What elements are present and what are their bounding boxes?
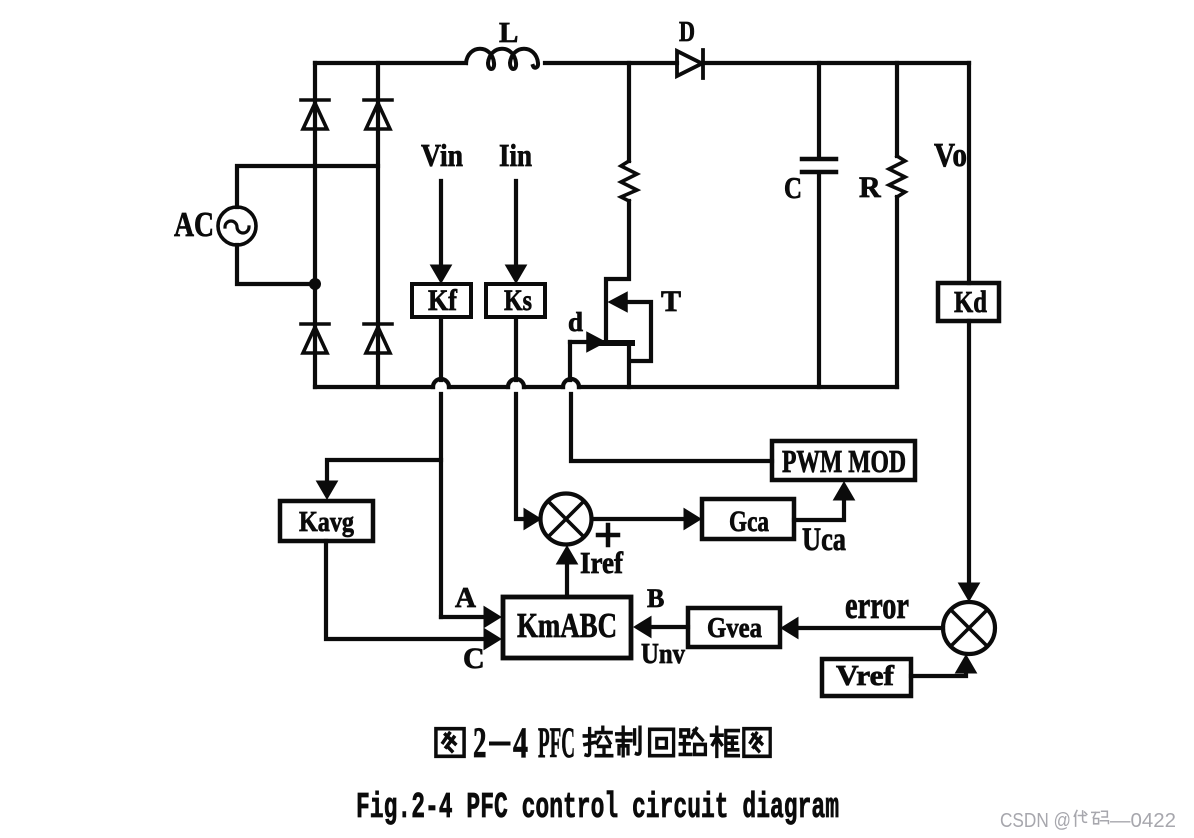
block KmABC — [503, 597, 631, 658]
svg-text:Vref: Vref — [836, 661, 895, 692]
svg-text:Iref: Iref — [580, 545, 624, 580]
block Kf — [412, 284, 471, 317]
caption dash — [489, 742, 511, 746]
resistor R bottom wire — [895, 197, 899, 387]
hanzi dai4 (watermark) — [1074, 811, 1087, 827]
capacitor C plates — [802, 159, 836, 172]
svg-text:Iin: Iin — [499, 137, 532, 173]
transistor T gate arrow d — [570, 340, 587, 344]
wire Gca to PWM MOD — [794, 499, 844, 520]
svg-text:Gca: Gca — [729, 505, 769, 538]
wire Iin arrow — [514, 181, 518, 268]
wire bridge right leg — [376, 63, 380, 387]
hanzi kong4 — [584, 727, 612, 755]
svg-text:Kf: Kf — [428, 284, 458, 317]
svg-text:C: C — [463, 642, 485, 675]
wire M1 to Gca — [592, 517, 684, 521]
hanzi ma3 (watermark) — [1092, 811, 1109, 824]
wire bridge left leg — [313, 63, 317, 387]
block Kd — [938, 283, 999, 321]
svg-text:L: L — [499, 17, 518, 49]
block Gvea — [688, 608, 780, 647]
wire resistor to drain — [606, 201, 629, 342]
svg-text:PWM MOD: PWM MOD — [782, 443, 906, 479]
svg-text:PFC: PFC — [538, 719, 575, 767]
wire Kf output down — [439, 321, 443, 617]
wire Gvea to KmABC arrow — [651, 625, 688, 629]
diode D3 bridge lower-left — [301, 324, 329, 353]
svg-text:KmABC: KmABC — [517, 606, 617, 645]
wire Ks output to multiplier — [516, 321, 524, 519]
wire branch to Kavg — [327, 460, 441, 482]
diode D2 bridge upper-right — [364, 100, 392, 129]
wire Kavg to C input — [326, 541, 484, 639]
wire Kd to multiplier — [967, 321, 971, 586]
wire right rail to Kd — [967, 63, 971, 283]
svg-text:—0422: —0422 — [1110, 810, 1176, 832]
wire error M2 to Gvea — [798, 626, 943, 630]
wire AC top — [237, 166, 378, 207]
diode D — [677, 50, 703, 78]
hanzi zhi4 — [617, 727, 640, 755]
block Vref — [822, 659, 911, 696]
svg-text:Unv: Unv — [641, 638, 685, 670]
svg-text:A: A — [455, 582, 476, 614]
wire AC bottom — [237, 245, 315, 284]
wire hop at gate line — [563, 379, 579, 387]
AC source — [218, 207, 256, 245]
wire resistor branch top — [627, 63, 631, 161]
diode D1 bridge upper-left — [301, 100, 329, 129]
svg-text:Uca: Uca — [802, 522, 846, 558]
resistor R branch top — [895, 63, 899, 156]
svg-text:Kavg: Kavg — [299, 506, 354, 538]
svg-text:d: d — [568, 307, 583, 337]
svg-text:2: 2 — [473, 719, 487, 767]
multiplier M2 — [943, 602, 995, 654]
inductor L — [466, 49, 538, 69]
block Gca — [702, 499, 794, 539]
hanzi tu2 (caption) — [436, 729, 464, 757]
resistor R zigzag — [889, 156, 905, 197]
block PWM MOD — [772, 441, 915, 480]
wire hop at Kf line — [433, 379, 449, 387]
wire Iref arrow KmABC to M1 — [565, 563, 569, 597]
hanzi tu2 (caption second) — [744, 729, 770, 757]
hanzi hui2 — [650, 729, 674, 755]
hanzi lu4 — [680, 729, 705, 755]
svg-text:Kd: Kd — [954, 284, 987, 319]
wire gate down to PWM — [570, 342, 772, 461]
svg-text:4: 4 — [513, 719, 528, 767]
wire top rail — [315, 61, 969, 65]
multiplier M1 — [541, 494, 592, 545]
svg-text:R: R — [859, 171, 881, 204]
capacitor C branch top — [817, 63, 821, 156]
wire Vin arrow — [439, 181, 443, 268]
svg-text:D: D — [679, 16, 695, 48]
wire Vref to M2 — [911, 672, 966, 676]
hanzi kuang4 — [711, 727, 738, 756]
svg-text:B: B — [647, 584, 664, 613]
svg-text:CSDN @: CSDN @ — [1000, 810, 1071, 832]
diode D4 bridge lower-right — [364, 324, 392, 353]
svg-text:Fig.2-4 PFC control circuit di: Fig.2-4 PFC control circuit diagram — [356, 787, 839, 828]
svg-text:Vin: Vin — [421, 137, 463, 173]
svg-text:Gvea: Gvea — [707, 613, 762, 644]
svg-text:T: T — [661, 285, 681, 318]
svg-text:C: C — [784, 170, 802, 205]
transistor T body bar — [601, 340, 632, 346]
block Ks — [486, 284, 545, 317]
svg-text:AC: AC — [174, 205, 214, 244]
node junction AC-bridge — [309, 278, 321, 290]
svg-text:error: error — [845, 585, 909, 627]
label plus — [598, 525, 618, 545]
transistor T emitter arrow — [609, 293, 627, 312]
wire A input arrow — [441, 615, 484, 619]
wire bottom rail with hops — [315, 385, 897, 389]
resistor sense — [621, 161, 637, 201]
wire hop at Ks line — [508, 379, 524, 387]
svg-text:Ks: Ks — [504, 284, 532, 317]
svg-text:Vo: Vo — [934, 137, 967, 174]
block Kavg — [280, 501, 373, 541]
capacitor C bottom wire — [817, 175, 821, 387]
